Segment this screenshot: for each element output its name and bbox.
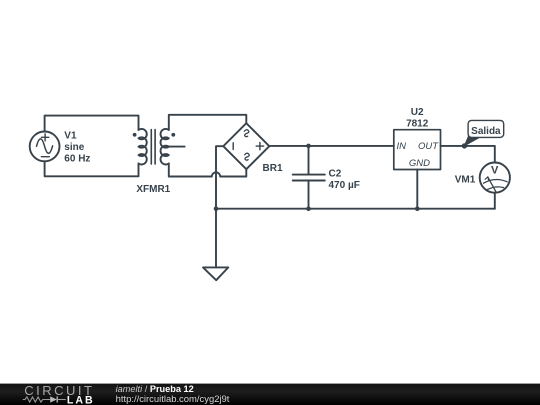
node flag Salida box	[468, 120, 504, 137]
capacitor C2 top plate	[293, 174, 325, 176]
regulator U2 box	[394, 130, 441, 170]
svg-text:60 Hz: 60 Hz	[64, 154, 90, 165]
node flag Salida pointer	[464, 136, 479, 146]
wire regulator U2 OUT pin to voltmeter VM1 top	[441, 146, 495, 163]
svg-text:Salida: Salida	[471, 126, 501, 137]
svg-text:470 µF: 470 µF	[329, 180, 360, 191]
bridge BR1 AC tilde mark top	[244, 130, 249, 137]
wire V1 plus terminal to XFMR1 primary top	[45, 116, 139, 132]
footer logo wire segment	[57, 399, 66, 401]
wire to ground symbol	[215, 209, 217, 268]
node Salida flag anchor dot	[462, 143, 467, 148]
footer logo resistor zigzag	[23, 397, 50, 402]
wire BR1 plus output (right corner) to regulator U2 IN pin	[269, 145, 394, 147]
voltage source V1 (sine, 60 Hz)	[30, 132, 60, 162]
footer logo diode bar	[56, 396, 58, 402]
bridge rectifier BR1 diamond body	[223, 123, 269, 169]
bridge BR1 plus mark	[256, 142, 263, 149]
capacitor C2 bottom plate	[293, 180, 325, 182]
svg-text:IN: IN	[397, 141, 407, 152]
voltmeter VM1 needle	[488, 177, 497, 193]
svg-text:LAB: LAB	[67, 395, 95, 405]
bridge BR1 minus mark	[232, 143, 234, 150]
wire XFMR1 secondary top to BR1 AC input (top corner)	[169, 115, 247, 130]
svg-text:VM1: VM1	[455, 175, 476, 186]
svg-text:sine: sine	[64, 142, 84, 153]
junction at ground node on rail	[214, 206, 219, 211]
svg-text:7812: 7812	[406, 119, 429, 130]
wire bottom ground rail	[216, 208, 495, 210]
svg-text:iamelti / Prueba 12: iamelti / Prueba 12	[116, 384, 194, 394]
wire BR1 minus output (left corner) down to ground rail	[216, 146, 223, 209]
transformer XFMR1 primary winding	[139, 129, 147, 165]
voltmeter VM1 needle arrowhead	[485, 177, 489, 180]
voltmeter VM1 body	[480, 163, 510, 193]
wire voltmeter VM1 bottom to ground rail	[494, 193, 496, 209]
junction at C2 top on DC rail	[306, 144, 311, 149]
svg-text:BR1: BR1	[263, 163, 283, 174]
wire XFMR1 secondary bottom to BR1 AC input (bottom corner), with hop over ground wire	[169, 164, 247, 177]
svg-text:V1: V1	[64, 131, 77, 142]
wire capacitor C2 bottom lead	[308, 181, 310, 209]
svg-text:XFMR1: XFMR1	[136, 184, 170, 195]
footer logo diode triangle	[50, 396, 57, 402]
junction at C2 bottom on ground rail	[306, 206, 311, 211]
svg-text:GND: GND	[409, 158, 430, 169]
svg-text:http://circuitlab.com/cyg2j9t: http://circuitlab.com/cyg2j9t	[116, 394, 230, 405]
transformer XFMR1 secondary winding	[161, 129, 169, 165]
wire regulator U2 GND pin to ground rail	[416, 170, 418, 209]
svg-text:C2: C2	[329, 168, 342, 179]
ground	[203, 267, 228, 280]
transformer XFMR1 primary polarity dot	[133, 133, 137, 137]
transformer XFMR1 secondary polarity dot	[171, 133, 175, 137]
voltmeter VM1 gauge scale arc	[484, 180, 508, 184]
bridge BR1 AC tilde mark bottom	[245, 153, 250, 160]
svg-text:V: V	[491, 165, 499, 177]
footer bar background	[0, 384, 540, 405]
wire V1 minus terminal to XFMR1 primary bottom	[45, 161, 139, 176]
junction at U2 GND on ground rail	[415, 206, 420, 211]
svg-text:U2: U2	[411, 107, 424, 118]
wire capacitor C2 top lead	[308, 146, 310, 174]
transformer XFMR1 core	[151, 130, 155, 165]
svg-text:OUT: OUT	[418, 141, 439, 152]
voltmeter VM1 gauge lower arc	[487, 187, 503, 190]
transformer XFMR1 secondary center-tap stub	[169, 146, 185, 148]
